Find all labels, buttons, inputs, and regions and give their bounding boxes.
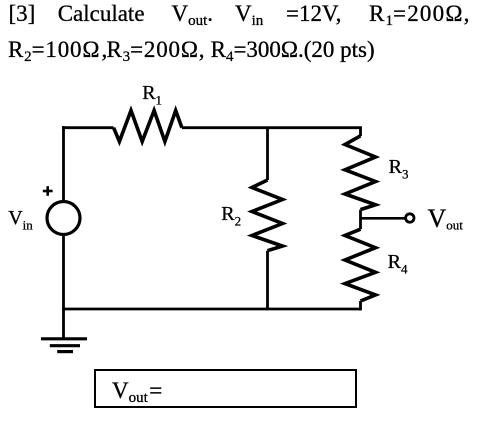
problem text line 1 bbox=[9, 2, 36, 25]
label R4 bbox=[388, 252, 408, 276]
voltage source V_in bbox=[47, 202, 80, 235]
label R1 bbox=[142, 83, 162, 107]
answer box label V_out= bbox=[112, 379, 162, 406]
wire: right branch bottom stub bbox=[359, 301, 362, 310]
wire: left branch upper segment bbox=[62, 126, 65, 202]
problem text line 2 bbox=[8, 38, 100, 65]
label R2 bbox=[221, 204, 241, 228]
ground bbox=[41, 339, 87, 352]
resistor R1 bbox=[114, 111, 182, 142]
plus polarity mark bbox=[43, 186, 53, 196]
resistor R4 bbox=[345, 229, 376, 301]
label R3 bbox=[389, 157, 409, 181]
wire: right branch middle segment at tap node bbox=[359, 210, 362, 230]
wire: right branch top stub bbox=[359, 128, 362, 136]
resistor R3 bbox=[345, 136, 376, 210]
answer box bbox=[94, 369, 357, 409]
node: V_out terminal bbox=[406, 214, 414, 222]
label V_in bbox=[8, 208, 33, 232]
label V_out bbox=[428, 206, 463, 232]
wire: middle branch upper segment bbox=[266, 128, 269, 180]
wire: middle branch lower segment bbox=[266, 251, 269, 309]
wire: bottom rail bbox=[62, 308, 361, 311]
wire: top rail from left branch to right branch bbox=[62, 126, 362, 129]
resistor R2 bbox=[252, 180, 283, 251]
wire: V_out tap bbox=[361, 217, 405, 220]
wire: left branch lower segment to ground bbox=[62, 234, 65, 338]
